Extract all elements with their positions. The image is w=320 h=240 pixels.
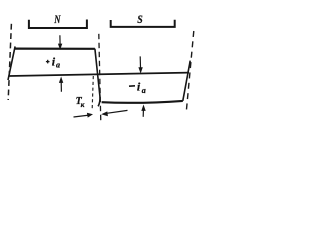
short dashed line (start of commutation interval) (92, 76, 93, 109)
S pole bracket (111, 20, 175, 27)
svg-text:a: a (56, 60, 60, 69)
right dashed pole-boundary line (186, 31, 194, 113)
svg-text:a: a (142, 86, 146, 95)
time axis (zero line) (10, 73, 189, 76)
waveform: left rising slope (8, 46, 15, 80)
waveform: right rising edge (183, 61, 190, 101)
label +ia (46, 60, 50, 64)
-ia lower dimension arrow (points up to bottom edge) (141, 105, 145, 117)
svg-text:S: S (137, 13, 142, 26)
+ia lower dimension arrow (points up to axis) (59, 77, 63, 92)
waveform: top edge (+ia level) (15, 47, 95, 49)
Tk right dimension arrow (points left) (101, 110, 127, 116)
-ia upper dimension arrow (points down to axis) (138, 56, 142, 73)
svg-text:N: N (53, 14, 60, 27)
middle dashed pole-boundary line (99, 34, 101, 123)
left dashed pole-boundary line (8, 24, 11, 100)
waveform: bottom edge (-ia level) (102, 101, 183, 103)
svg-text:к: к (81, 100, 85, 109)
+ia upper dimension arrow (points down to top edge) (58, 35, 62, 50)
N pole bracket (29, 20, 87, 29)
waveform: falling commutation edge (95, 49, 100, 107)
Tk left dimension arrow (points right) (74, 113, 94, 118)
label -ia (129, 85, 135, 87)
